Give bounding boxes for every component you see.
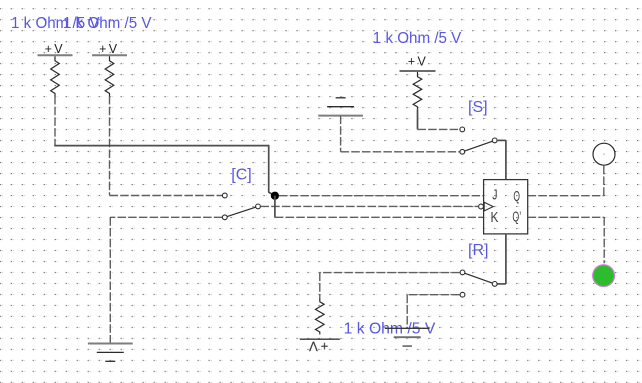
svg-text:[C]: [C] xyxy=(231,166,251,183)
svg-text:Q’: Q’ xyxy=(512,208,521,225)
svg-text:[S]: [S] xyxy=(468,99,488,116)
svg-text:+V: +V xyxy=(99,42,119,56)
svg-text:1 k Ohm /5 V: 1 k Ohm /5 V xyxy=(63,15,152,32)
svg-text:K: K xyxy=(491,209,499,226)
svg-text:+V: +V xyxy=(408,54,428,68)
svg-text:J: J xyxy=(492,187,497,204)
svg-text:[R]: [R] xyxy=(468,242,488,259)
svg-text:1 k Ohm /5 V: 1 k Ohm /5 V xyxy=(373,30,462,47)
svg-text:Q: Q xyxy=(513,188,520,205)
svg-text:+V: +V xyxy=(306,339,328,354)
svg-text:+V: +V xyxy=(45,42,65,56)
